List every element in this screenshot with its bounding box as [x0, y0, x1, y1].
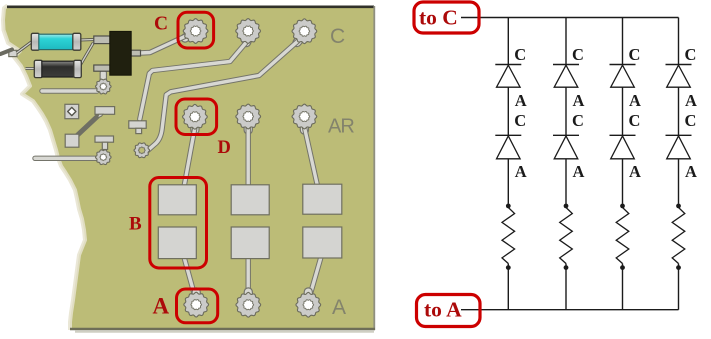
- svg-text:D: D: [218, 138, 231, 158]
- svg-text:A: A: [515, 91, 527, 110]
- svg-text:B: B: [129, 214, 142, 235]
- svg-text:A: A: [573, 162, 585, 181]
- svg-text:AR: AR: [328, 116, 354, 138]
- svg-text:C: C: [685, 45, 697, 64]
- svg-text:to A: to A: [424, 298, 462, 322]
- svg-text:C: C: [572, 45, 584, 64]
- svg-text:A: A: [685, 162, 697, 181]
- svg-text:C: C: [629, 111, 641, 130]
- svg-text:C: C: [154, 14, 168, 35]
- svg-text:A: A: [153, 294, 170, 319]
- svg-text:C: C: [330, 25, 345, 48]
- svg-text:C: C: [629, 45, 641, 64]
- svg-text:C: C: [514, 111, 526, 130]
- svg-text:C: C: [514, 45, 526, 64]
- svg-text:C: C: [685, 111, 697, 130]
- svg-text:A: A: [629, 91, 641, 110]
- svg-text:C: C: [572, 111, 584, 130]
- svg-text:A: A: [515, 162, 527, 181]
- svg-text:A: A: [573, 91, 585, 110]
- svg-text:A: A: [685, 91, 697, 110]
- svg-text:A: A: [332, 296, 346, 319]
- svg-text:to C: to C: [419, 6, 458, 30]
- svg-text:A: A: [629, 162, 641, 181]
